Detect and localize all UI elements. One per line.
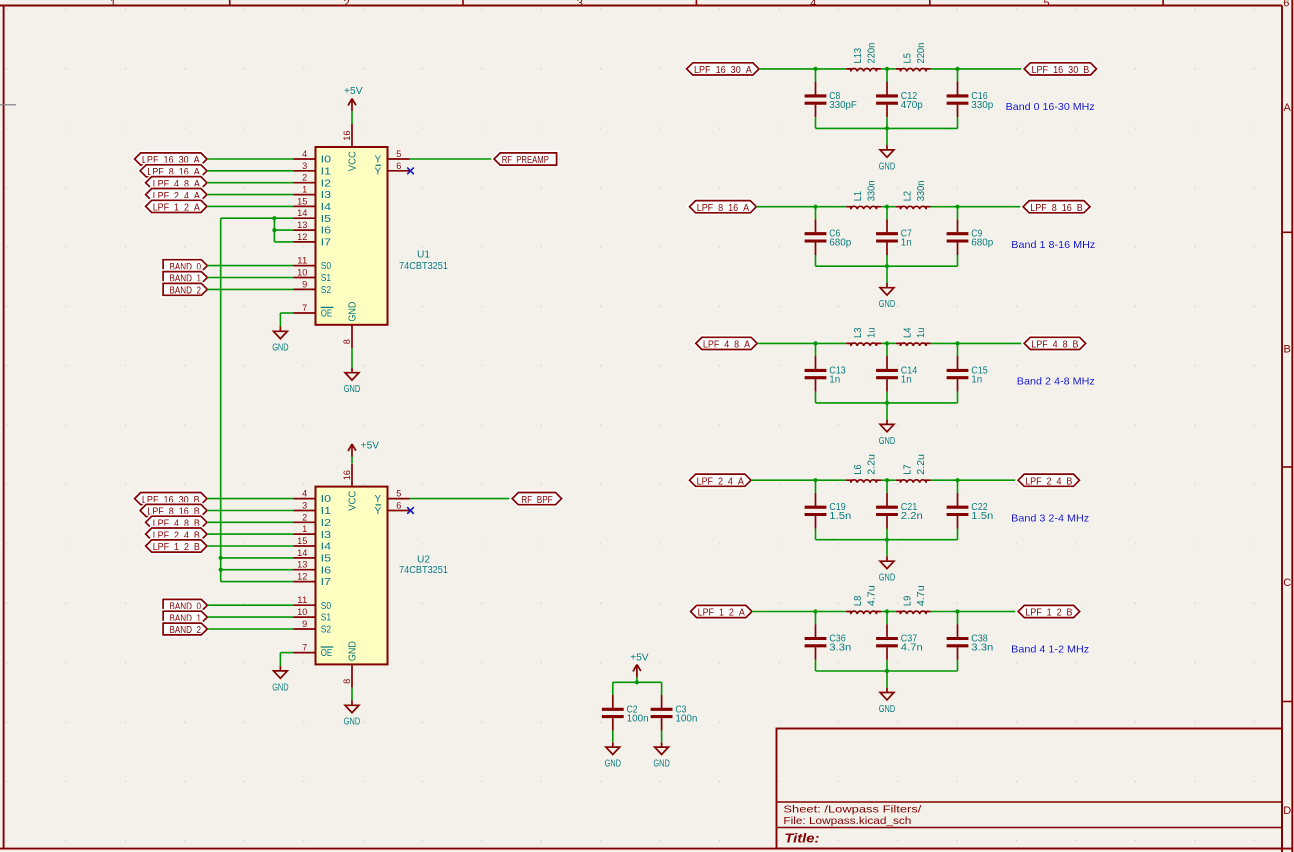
- svg-text:+5V: +5V: [344, 86, 363, 97]
- hierarchical label RF_BPF: [512, 493, 561, 506]
- capacitor C14 1n: [876, 343, 918, 403]
- svg-text:LPF_1_2_A: LPF_1_2_A: [698, 608, 745, 619]
- hierarchical label LPF_1_2_A (U1): [146, 200, 207, 213]
- wire LPF_2_4_A to U1 pin: [207, 194, 294, 196]
- junction at C15 top: [955, 341, 959, 345]
- junction U1 I6: [272, 228, 276, 232]
- svg-text:I0: I0: [321, 155, 332, 166]
- svg-text:LPF_4_8_B: LPF_4_8_B: [1031, 340, 1078, 351]
- svg-text:3: 3: [302, 161, 307, 171]
- svg-text:I5: I5: [321, 214, 332, 225]
- hierarchical label LPF_2_4_B (U2): [146, 528, 207, 541]
- svg-text:1n: 1n: [901, 238, 912, 249]
- svg-text:Band 2 4-8 MHz: Band 2 4-8 MHz: [1017, 376, 1095, 388]
- wire node to inductor L6: [816, 479, 847, 481]
- svg-text:I3: I3: [321, 530, 332, 541]
- svg-text:6: 6: [1283, 0, 1289, 9]
- svg-text:GND: GND: [344, 717, 360, 728]
- ground GND at U2 OE: [272, 666, 288, 693]
- svg-text:I6: I6: [321, 565, 332, 576]
- svg-text:GND: GND: [348, 641, 359, 661]
- wire LPF_2_4_B to U2 pin: [207, 533, 294, 535]
- wire node to LPF_8_16_B: [958, 206, 1024, 208]
- capacitor C7 1n: [876, 207, 912, 267]
- ground GND at C3: [653, 742, 669, 769]
- svg-text:VCC: VCC: [348, 491, 359, 511]
- capacitor C37 4.7n: [876, 612, 923, 672]
- hierarchical label LPF_8_16_B (U2): [140, 504, 207, 517]
- svg-text:11: 11: [297, 256, 307, 266]
- svg-text:LPF_1_2_B: LPF_1_2_B: [1025, 608, 1072, 619]
- wire U2 I6 horizontal: [221, 569, 294, 571]
- hierarchical label LPF_4_8_A (U1): [146, 177, 207, 190]
- svg-text:330p: 330p: [971, 100, 993, 111]
- junction at C13 top: [813, 341, 817, 345]
- svg-text:11: 11: [297, 595, 307, 605]
- note Band 3 2-4 MHz: [1011, 512, 1089, 524]
- svg-text:14: 14: [297, 548, 307, 558]
- wire node to inductor L1: [816, 206, 847, 208]
- wire L6 to L7: [881, 479, 896, 481]
- wire LPF_8_16_A to node: [756, 206, 815, 208]
- U2 reference and value: [399, 555, 448, 576]
- svg-text:10: 10: [297, 268, 307, 278]
- IC U1 74CBT3251 body: [316, 147, 388, 325]
- svg-text:16: 16: [342, 470, 352, 480]
- svg-text:I0: I0: [321, 494, 332, 505]
- inductor L7 2.2u: [896, 454, 931, 483]
- inductor L8 4.7u: [846, 585, 881, 614]
- junction at C14 top: [885, 341, 889, 345]
- ground GND filter: [879, 145, 895, 172]
- svg-text:4: 4: [302, 489, 307, 499]
- svg-text:5: 5: [396, 149, 401, 159]
- svg-text:L8: L8: [853, 595, 864, 606]
- wire U1 I5 horizontal: [221, 217, 294, 219]
- svg-text:VCC: VCC: [348, 151, 359, 171]
- svg-text:I5: I5: [321, 554, 332, 565]
- wire LPF_4_8_B to U2 pin: [207, 521, 294, 523]
- svg-text:C: C: [1283, 577, 1291, 589]
- wire rail to GND: [886, 540, 888, 557]
- junction U2 I5: [219, 556, 223, 560]
- svg-text:+5V: +5V: [361, 440, 380, 451]
- hierarchical label LPF_1_2_B: [1018, 605, 1079, 618]
- wire U2 Y to RF_BPF: [410, 498, 513, 500]
- U1 reference and value: [399, 249, 448, 272]
- hierarchical label LPF_16_30_A: [687, 63, 759, 76]
- svg-text:470p: 470p: [901, 100, 923, 111]
- svg-text:100n: 100n: [675, 713, 697, 724]
- junction ground rail: [885, 126, 889, 130]
- svg-text:15: 15: [297, 196, 307, 206]
- svg-text:I3: I3: [321, 190, 332, 201]
- svg-text:S1: S1: [321, 273, 332, 284]
- capacitor C19 1.5n: [805, 480, 852, 540]
- svg-text:I7: I7: [321, 577, 332, 588]
- svg-text:GND: GND: [272, 682, 288, 693]
- wire rail to GND: [886, 403, 888, 420]
- svg-text:2.2u: 2.2u: [916, 454, 927, 475]
- svg-text:2: 2: [302, 173, 307, 183]
- junction at C12 top: [885, 67, 889, 71]
- junction at C22 top: [955, 478, 959, 482]
- svg-text:3: 3: [577, 0, 583, 9]
- svg-text:74CBT3251: 74CBT3251: [399, 565, 448, 576]
- hierarchical label LPF_8_16_B: [1023, 201, 1090, 214]
- svg-text:RF_PREAMP: RF_PREAMP: [502, 155, 549, 166]
- svg-text:Y: Y: [375, 506, 382, 517]
- ground GND at U2 pin 8: [344, 701, 360, 728]
- ground GND at U1 pin 8: [344, 368, 360, 395]
- svg-text:U2: U2: [417, 555, 430, 566]
- inductor L6 2.2u: [846, 454, 881, 483]
- ground GND at U1 OE: [272, 327, 288, 354]
- svg-text:I2: I2: [321, 178, 332, 189]
- hierarchical label BAND_0 (U1): [163, 260, 207, 273]
- svg-text:I1: I1: [321, 166, 332, 177]
- svg-text:1n: 1n: [971, 374, 982, 385]
- capacitor C38 3.3n: [947, 612, 994, 672]
- svg-text:I4: I4: [321, 542, 332, 553]
- hierarchical label LPF_4_8_B: [1024, 337, 1086, 350]
- wire U1 OE to ground: [280, 313, 293, 327]
- wire bus tie vertical U1-U2: [220, 218, 222, 581]
- power +5V decoupling: [630, 652, 649, 682]
- power +5V at U2 pin 16: [348, 440, 379, 463]
- svg-text:Band 4 1-2 MHz: Band 4 1-2 MHz: [1011, 644, 1089, 656]
- wire U1 Y to RF_PREAMP: [410, 158, 495, 160]
- hierarchical label LPF_2_4_A (U1): [146, 189, 207, 202]
- svg-text:8: 8: [342, 679, 352, 684]
- capacitor C22 1.5n: [947, 480, 994, 540]
- wire node to LPF_1_2_B: [958, 611, 1019, 613]
- svg-text:BAND_2: BAND_2: [170, 625, 202, 636]
- svg-text:GND: GND: [605, 759, 621, 770]
- svg-text:Title:: Title:: [784, 832, 819, 846]
- svg-text:Sheet: /Lowpass Filters/: Sheet: /Lowpass Filters/: [783, 803, 921, 815]
- junction at C37 top: [885, 609, 889, 613]
- wire L3 to L4: [881, 342, 896, 344]
- power +5V at U1 pin 16: [344, 86, 363, 124]
- wire ground rail: [816, 127, 958, 129]
- hierarchical label BAND_2 (U2): [163, 623, 207, 636]
- svg-text:Y: Y: [375, 155, 382, 166]
- svg-text:S0: S0: [321, 601, 332, 612]
- capacitor C3 100n: [651, 682, 698, 742]
- wire rail to GND: [886, 671, 888, 688]
- note Band 2 4-8 MHz: [1017, 376, 1095, 388]
- wire U1 I7 horizontal: [274, 241, 293, 243]
- hierarchical label LPF_8_16_A (U1): [140, 165, 207, 178]
- wire L1 to L2: [881, 206, 896, 208]
- wire U2 I5 horizontal: [221, 557, 294, 559]
- svg-text:680p: 680p: [971, 238, 993, 249]
- wire +5V rail C2-C3: [613, 681, 662, 683]
- svg-text:L3: L3: [853, 327, 864, 338]
- no-connect X on U1 pin 6: [407, 168, 414, 175]
- svg-text:S2: S2: [321, 625, 332, 636]
- wire LPF_4_8_A to node: [757, 342, 815, 344]
- svg-text:Band 3 2-4 MHz: Band 3 2-4 MHz: [1011, 512, 1089, 524]
- svg-text:L5: L5: [903, 53, 914, 64]
- junction +5V node: [635, 680, 639, 684]
- svg-text:3.3n: 3.3n: [829, 643, 851, 654]
- wire C2 to ground: [612, 741, 614, 744]
- svg-text:220n: 220n: [867, 43, 878, 64]
- wire LPF_1_2_A to U1 pin: [207, 205, 294, 207]
- svg-text:Y: Y: [375, 494, 382, 505]
- hierarchical label LPF_2_4_B: [1018, 474, 1079, 487]
- wire U2 I7 horizontal: [221, 581, 294, 583]
- svg-text:LPF_1_2_A: LPF_1_2_A: [153, 203, 200, 214]
- svg-text:16: 16: [342, 131, 352, 141]
- wire ground rail: [816, 402, 958, 404]
- inductor L9 4.7u: [896, 585, 931, 614]
- hierarchical label LPF_16_30_A (U1): [135, 153, 207, 166]
- svg-text:7: 7: [302, 303, 307, 313]
- wire node to inductor L3: [816, 342, 847, 344]
- svg-text:9: 9: [302, 279, 307, 289]
- hierarchical label LPF_2_4_A: [690, 474, 752, 487]
- svg-text:OE: OE: [321, 309, 333, 320]
- wire BAND_2 to U2 pin: [207, 628, 293, 630]
- svg-text:I2: I2: [321, 518, 332, 529]
- svg-text:4.7u: 4.7u: [867, 585, 878, 606]
- capacitor C6 680p: [805, 207, 852, 267]
- svg-text:I1: I1: [321, 506, 332, 517]
- junction at C8 top: [813, 67, 817, 71]
- wire ground rail: [816, 670, 958, 672]
- svg-text:1: 1: [302, 524, 307, 534]
- wire L5 to node: [931, 68, 958, 70]
- svg-text:2.2n: 2.2n: [901, 511, 923, 522]
- wire LPF_4_8_A to U1 pin: [207, 182, 294, 184]
- capacitor C21 2.2n: [876, 480, 923, 540]
- svg-text:L4: L4: [903, 327, 914, 338]
- wire U1 pin 8 to ground: [351, 348, 353, 368]
- note Band 4 1-2 MHz: [1011, 644, 1089, 656]
- svg-text:L6: L6: [853, 464, 864, 475]
- svg-text:1.5n: 1.5n: [829, 511, 851, 522]
- wire node to LPF_2_4_B: [958, 479, 1019, 481]
- wire L7 to node: [931, 479, 958, 481]
- svg-text:+5V: +5V: [630, 652, 649, 663]
- svg-text:L2: L2: [903, 190, 914, 201]
- svg-text:13: 13: [297, 560, 307, 570]
- inductor L1 330n: [846, 181, 881, 210]
- capacitor C9 680p: [947, 207, 994, 267]
- note Band 0 16-30 MHz: [1006, 101, 1095, 113]
- svg-text:GND: GND: [879, 299, 895, 310]
- junction at C7 top: [885, 205, 889, 209]
- svg-text:1u: 1u: [916, 328, 927, 338]
- wire ground rail: [816, 539, 958, 541]
- svg-text:3: 3: [302, 501, 307, 511]
- svg-text:Band 0 16-30 MHz: Band 0 16-30 MHz: [1006, 101, 1095, 113]
- svg-text:GND: GND: [344, 384, 360, 395]
- svg-text:4: 4: [302, 149, 307, 159]
- svg-text:2.2u: 2.2u: [867, 454, 878, 475]
- svg-text:1u: 1u: [867, 328, 878, 338]
- capacitor C36 3.3n: [805, 612, 852, 672]
- wire C3 to ground: [661, 741, 663, 744]
- title block: [777, 729, 1283, 849]
- svg-text:13: 13: [297, 220, 307, 230]
- wire node to inductor L8: [816, 611, 847, 613]
- svg-text:4.7u: 4.7u: [916, 585, 927, 606]
- svg-text:B: B: [1284, 343, 1291, 355]
- svg-text:GND: GND: [272, 343, 288, 354]
- ground GND filter: [879, 283, 895, 310]
- ground GND at C2: [605, 742, 621, 769]
- svg-text:1.5n: 1.5n: [971, 511, 993, 522]
- IC U2 74CBT3251 body: [316, 487, 388, 665]
- wire U1 I5-I7 vertical: [273, 218, 275, 242]
- svg-text:LPF_1_2_B: LPF_1_2_B: [153, 542, 200, 553]
- svg-text:6: 6: [396, 501, 401, 511]
- junction at C6 top: [813, 205, 817, 209]
- svg-text:L1: L1: [853, 190, 864, 201]
- svg-text:GND: GND: [879, 161, 895, 172]
- wire LPF_8_16_B to U2 pin: [207, 510, 294, 512]
- svg-text:4: 4: [810, 0, 816, 9]
- wire rail to GND: [886, 128, 888, 145]
- svg-text:1n: 1n: [829, 374, 840, 385]
- inductor L4 1u: [896, 327, 931, 346]
- capacitor C2 100n: [602, 682, 649, 742]
- svg-text:7: 7: [302, 643, 307, 653]
- hierarchical label BAND_1 (U1): [163, 272, 207, 285]
- svg-text:GND: GND: [879, 573, 895, 584]
- wire LPF_1_2_A to node: [752, 611, 816, 613]
- svg-text:330n: 330n: [916, 181, 927, 202]
- capacitor C13 1n: [805, 343, 847, 403]
- junction at C9 top: [955, 205, 959, 209]
- svg-text:680p: 680p: [829, 238, 851, 249]
- junction at C36 top: [813, 609, 817, 613]
- wire L9 to node: [931, 611, 958, 613]
- svg-text:L7: L7: [903, 464, 914, 475]
- wire L2 to node: [931, 206, 958, 208]
- wire LPF_16_30_B to U2 pin: [207, 498, 294, 500]
- junction at C21 top: [885, 478, 889, 482]
- IC U2 pins: [294, 464, 410, 688]
- hierarchical label LPF_16_30_B (U2): [135, 493, 207, 506]
- ground GND filter: [879, 688, 895, 715]
- svg-text:GND: GND: [879, 704, 895, 715]
- inductor L3 1u: [846, 327, 881, 346]
- svg-text:LPF_4_8_A: LPF_4_8_A: [703, 340, 750, 351]
- svg-text:1: 1: [110, 0, 116, 9]
- svg-text:GND: GND: [653, 759, 669, 770]
- svg-text:U1: U1: [417, 249, 430, 260]
- svg-text:6: 6: [396, 161, 401, 171]
- hierarchical label BAND_1 (U2): [163, 611, 207, 624]
- note Band 1 8-16 MHz: [1011, 239, 1095, 251]
- svg-text:A: A: [1284, 102, 1292, 114]
- svg-text:12: 12: [297, 572, 307, 582]
- hierarchical label BAND_0 (U2): [163, 599, 207, 612]
- svg-text:330n: 330n: [867, 181, 878, 202]
- svg-text:RF_BPF: RF_BPF: [521, 495, 553, 506]
- hierarchical label LPF_16_30_B: [1024, 63, 1096, 76]
- svg-text:GND: GND: [879, 436, 895, 447]
- wire BAND_2 to U1 pin: [207, 288, 293, 290]
- svg-text:12: 12: [297, 232, 307, 242]
- svg-text:1: 1: [302, 185, 307, 195]
- inductor L2 330n: [896, 181, 931, 210]
- wire BAND_0 to U2 pin: [207, 604, 293, 606]
- svg-text:LPF_16_30_B: LPF_16_30_B: [1032, 65, 1090, 76]
- svg-text:GND: GND: [348, 302, 359, 322]
- wire ground rail: [816, 265, 958, 267]
- wire LPF_16_30_A to U1 pin: [207, 158, 294, 160]
- ground GND filter: [879, 556, 895, 583]
- IC U1 pins: [294, 124, 410, 348]
- hierarchical label BAND_2 (U1): [163, 283, 207, 296]
- hierarchical label LPF_1_2_B (U2): [146, 540, 207, 553]
- ground GND filter: [879, 420, 895, 447]
- svg-text:5: 5: [396, 489, 401, 499]
- svg-text:15: 15: [297, 536, 307, 546]
- wire BAND_0 to U1 pin: [207, 265, 293, 267]
- wire rail to GND: [886, 266, 888, 283]
- junction ground rail: [885, 538, 889, 542]
- svg-text:Band 1 8-16 MHz: Band 1 8-16 MHz: [1011, 239, 1095, 251]
- hierarchical label LPF_1_2_A: [691, 605, 753, 618]
- junction at C19 top: [813, 478, 817, 482]
- svg-text:5: 5: [1043, 0, 1049, 9]
- wire U2 pin 8 to ground: [351, 688, 353, 701]
- svg-text:S1: S1: [321, 613, 332, 624]
- svg-text:Y: Y: [375, 166, 382, 177]
- wire LPF_1_2_B to U2 pin: [207, 545, 294, 547]
- hierarchical label LPF_4_8_A: [696, 337, 757, 350]
- wire LPF_2_4_A to node: [751, 479, 816, 481]
- wire L13 to L5: [881, 68, 896, 70]
- wire U2 OE to ground: [280, 653, 293, 667]
- svg-text:9: 9: [302, 619, 307, 629]
- capacitor C8 330pF: [805, 69, 857, 128]
- wire BAND_1 to U2 pin: [207, 616, 293, 618]
- hierarchical label LPF_4_8_B (U2): [146, 516, 207, 529]
- svg-text:2: 2: [343, 0, 349, 9]
- inductor L5 220n: [896, 43, 931, 72]
- junction U2 I6: [219, 568, 223, 572]
- wire LPF_8_16_A to U1 pin: [207, 170, 294, 172]
- junction at C38 top: [955, 609, 959, 613]
- svg-text:LPF_16_30_A: LPF_16_30_A: [694, 65, 752, 76]
- svg-text:8: 8: [342, 339, 352, 344]
- junction at C16 top: [955, 67, 959, 71]
- svg-text:220n: 220n: [916, 43, 927, 64]
- wire U1 I6 horizontal: [274, 229, 293, 231]
- hierarchical label LPF_8_16_A: [690, 201, 757, 214]
- svg-text:LPF_8_16_B: LPF_8_16_B: [1030, 203, 1083, 214]
- svg-text:330pF: 330pF: [829, 100, 857, 111]
- svg-text:S0: S0: [321, 261, 332, 272]
- svg-text:I4: I4: [321, 202, 332, 213]
- wire L4 to node: [931, 342, 958, 344]
- svg-text:3.3n: 3.3n: [971, 643, 993, 654]
- svg-text:OE: OE: [321, 648, 333, 659]
- svg-text:BAND_2: BAND_2: [170, 286, 202, 297]
- capacitor C16 330p: [947, 69, 994, 128]
- svg-text:4.7n: 4.7n: [901, 643, 923, 654]
- wire L8 to L9: [881, 611, 896, 613]
- svg-text:I7: I7: [321, 238, 332, 249]
